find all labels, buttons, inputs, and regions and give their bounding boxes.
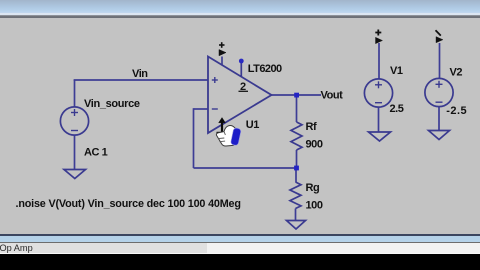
bottom dark separator xyxy=(0,234,480,236)
voltage source Vin_source xyxy=(60,107,88,135)
letterbox black xyxy=(0,254,480,270)
svg-text:V1: V1 xyxy=(390,65,403,77)
wire feedback horizontal xyxy=(194,167,297,169)
svg-text:-2.5: -2.5 xyxy=(446,105,467,117)
svg-text:Vin_source: Vin_source xyxy=(84,98,140,110)
power flag +V (op-amp top) xyxy=(219,42,226,56)
wire V2 bottom to ground xyxy=(438,107,440,131)
resistor Rg xyxy=(290,182,301,209)
voltage source V1 xyxy=(364,79,392,107)
ground (Vin_source) xyxy=(64,170,86,179)
power flag -V (V2 top) xyxy=(436,30,444,43)
ground (V2) xyxy=(429,131,450,140)
wire Vin vertical from source top xyxy=(74,80,76,108)
wire feedback vertical xyxy=(193,108,195,168)
pin 2 dot xyxy=(239,59,244,64)
pin 2 wire with dot xyxy=(240,63,242,77)
junction Rf/Rg xyxy=(294,166,299,171)
ground (V1) xyxy=(369,132,391,141)
wire output xyxy=(271,94,322,96)
wire Rf bottom to junction xyxy=(296,150,298,168)
svg-text:V2: V2 xyxy=(450,67,463,79)
op-amp V+ pin stub xyxy=(221,57,223,66)
wire Vout node down to Rf xyxy=(296,95,298,122)
resistor Rf xyxy=(291,122,302,150)
svg-text:Vin: Vin xyxy=(132,68,148,80)
wire V2 top xyxy=(439,43,441,79)
status bar xyxy=(0,243,480,253)
svg-text:Rf: Rf xyxy=(306,121,317,133)
svg-text:Vout: Vout xyxy=(321,90,344,102)
wire source bottom to ground xyxy=(74,135,76,170)
power flag -V (op-amp bottom) xyxy=(217,118,226,133)
wire V1 top xyxy=(378,43,380,80)
bottom blue strip xyxy=(0,236,480,241)
title bar xyxy=(0,0,480,13)
op-amp U1 xyxy=(208,57,272,134)
voltage source V2 xyxy=(425,78,453,106)
junction Vout xyxy=(294,93,299,98)
wire junction to Rg top xyxy=(295,168,297,182)
svg-text:AC 1: AC 1 xyxy=(84,147,108,159)
svg-text:Rg: Rg xyxy=(306,182,320,194)
svg-text:U1: U1 xyxy=(246,119,259,131)
power flag +V (V1 top) xyxy=(375,30,382,44)
title bar separator xyxy=(0,15,480,18)
status bar left panel Op Amp xyxy=(0,243,207,253)
svg-text:2.5: 2.5 xyxy=(390,103,404,115)
wire minus input stub xyxy=(194,108,209,110)
mouse cursor xyxy=(216,125,241,146)
svg-text:900: 900 xyxy=(306,139,323,151)
svg-text:LT6200: LT6200 xyxy=(248,63,282,75)
title bar highlight xyxy=(0,13,480,15)
wire Rg bottom to ground xyxy=(295,209,297,221)
svg-text:.noise V(Vout) Vin_source dec: .noise V(Vout) Vin_source dec 100 100 40… xyxy=(16,198,241,210)
svg-text:100: 100 xyxy=(306,200,323,212)
wire Vin horizontal xyxy=(74,79,208,81)
ground (Rg) xyxy=(287,221,306,230)
wire V1 bottom to ground xyxy=(378,107,380,132)
status bar top line xyxy=(0,242,480,243)
